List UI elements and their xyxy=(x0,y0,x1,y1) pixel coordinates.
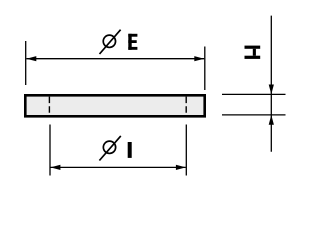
diameter symbol of ØI label xyxy=(99,136,120,161)
hidden line left (inner hole) xyxy=(48,97,50,115)
label I xyxy=(128,142,132,158)
dimension line ØI xyxy=(51,166,186,168)
arrowhead H up xyxy=(269,115,274,125)
extension line left (for ØE) xyxy=(25,41,27,85)
dimension line ØE xyxy=(26,58,204,60)
arrowhead ØI left xyxy=(51,165,61,170)
label E xyxy=(128,34,137,50)
arrowhead ØE right xyxy=(194,56,204,61)
diameter symbol of ØE label xyxy=(100,30,121,54)
arrowhead H down xyxy=(269,85,274,95)
arrowhead ØI right xyxy=(176,165,186,170)
extension line right (for ØI) xyxy=(185,125,187,176)
extension line left (for ØI) xyxy=(49,125,51,176)
extension line top (for H) xyxy=(222,93,286,95)
label H (rotated 90°) xyxy=(245,46,261,59)
hidden line right (inner hole) xyxy=(185,97,187,115)
washer body (side view) xyxy=(25,95,204,116)
dimension line H (continuous) xyxy=(270,16,272,152)
arrowhead ØE left xyxy=(26,56,36,61)
extension line right (for ØE) xyxy=(204,47,206,91)
extension line bottom (for H) xyxy=(222,114,286,116)
